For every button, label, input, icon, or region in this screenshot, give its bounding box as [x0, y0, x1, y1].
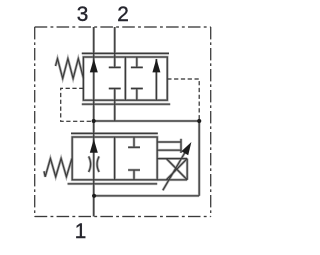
svg-text:2: 2: [117, 3, 129, 26]
svg-text:3: 3: [77, 3, 89, 26]
svg-text:1: 1: [75, 220, 87, 243]
